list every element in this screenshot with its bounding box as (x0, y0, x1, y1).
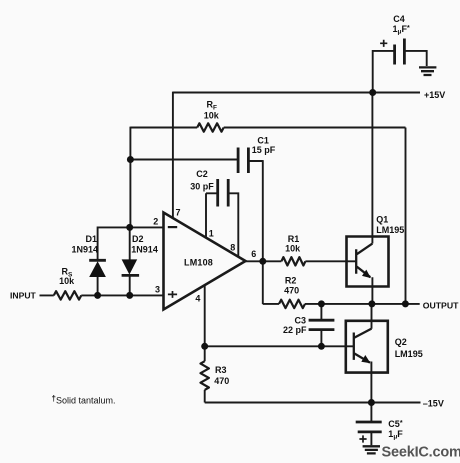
svg-text:10k: 10k (59, 276, 75, 286)
svg-text:C3: C3 (295, 315, 307, 325)
svg-text:LM195: LM195 (395, 349, 423, 359)
svg-text:C2: C2 (196, 169, 208, 179)
svg-text:C4: C4 (393, 14, 405, 24)
svg-text:D1: D1 (86, 234, 98, 244)
svg-text:15 pF: 15 pF (252, 145, 276, 155)
svg-text:OUTPUT: OUTPUT (423, 300, 459, 310)
svg-text:SeekIC.com: SeekIC.com (382, 444, 460, 460)
svg-text:1μF: 1μF (388, 429, 403, 441)
svg-text:8: 8 (230, 243, 235, 253)
svg-text:D2: D2 (132, 234, 144, 244)
svg-text:Q1: Q1 (376, 215, 388, 225)
svg-text:2: 2 (153, 217, 158, 227)
svg-text:R3: R3 (215, 365, 227, 375)
svg-text:3: 3 (155, 284, 160, 294)
svg-text:22 pF: 22 pF (283, 325, 307, 335)
svg-text:470: 470 (284, 285, 299, 295)
svg-text:+15V: +15V (424, 90, 445, 100)
svg-text:†Solid tantalum.: †Solid tantalum. (52, 394, 116, 406)
svg-text:C5*: C5* (388, 419, 403, 429)
svg-text:R1: R1 (288, 234, 300, 244)
svg-text:1μF*: 1μF* (393, 24, 411, 36)
svg-text:1N914: 1N914 (131, 245, 158, 255)
svg-text:6: 6 (251, 249, 256, 259)
svg-text:4: 4 (195, 294, 200, 304)
svg-text:–15V: –15V (423, 398, 444, 408)
svg-text:1: 1 (209, 228, 214, 238)
svg-text:LM108: LM108 (184, 258, 213, 268)
svg-text:R2: R2 (285, 276, 297, 286)
svg-text:Q2: Q2 (395, 337, 407, 347)
svg-text:30 pF: 30 pF (190, 181, 214, 191)
svg-text:LM195: LM195 (376, 225, 404, 235)
svg-text:10k: 10k (285, 244, 301, 254)
svg-text:470: 470 (214, 376, 229, 386)
svg-text:10k: 10k (204, 110, 220, 120)
svg-text:1N914: 1N914 (72, 245, 99, 255)
svg-text:7: 7 (175, 207, 180, 217)
svg-text:INPUT: INPUT (10, 290, 37, 300)
